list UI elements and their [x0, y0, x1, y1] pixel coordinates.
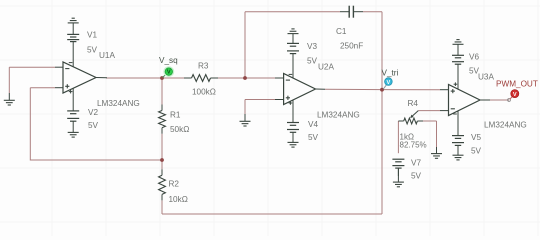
svg-text:R4: R4: [408, 99, 419, 108]
resistor R2: [159, 175, 166, 194]
svg-text:5V: 5V: [471, 146, 482, 155]
svg-text:R1: R1: [170, 111, 181, 120]
wire R1 to node B: [161, 134, 163, 160]
ground at R4 right lead: [431, 147, 442, 158]
battery V6: [452, 44, 464, 64]
battery V2: [67, 111, 79, 132]
battery V4: [287, 123, 299, 143]
resistor R3: [192, 75, 211, 82]
potentiometer R4: [404, 118, 418, 124]
ground below V5: [453, 155, 464, 160]
probe V_sq: [163, 66, 175, 77]
svg-text:V: V: [513, 92, 517, 98]
wire node B to R2: [161, 160, 163, 169]
wire feedback up: [29, 88, 31, 161]
battery V3: [287, 34, 299, 54]
wire R4 right lead down to ground: [436, 121, 438, 147]
svg-text:V_sq: V_sq: [159, 56, 178, 65]
pin stubs U3A: [440, 64, 490, 135]
svg-text:U2A: U2A: [318, 63, 334, 72]
svg-text:V7: V7: [411, 158, 421, 167]
svg-text:V: V: [167, 70, 171, 76]
battery V5: [452, 136, 464, 156]
wire op1 output to node V_sq: [106, 77, 162, 79]
svg-text:R3: R3: [198, 62, 209, 71]
svg-text:LM324ANG: LM324ANG: [317, 110, 360, 119]
pin stubs R1: [161, 105, 163, 134]
wire node A up to top rail: [244, 12, 246, 78]
ground above V6: [453, 40, 464, 45]
svg-text:V3: V3: [307, 42, 317, 51]
battery V1: [67, 23, 79, 42]
svg-text:5V: 5V: [307, 56, 318, 65]
battery V7: [392, 159, 404, 176]
U2A negative supply mark: [289, 73, 293, 75]
svg-text:10kΩ: 10kΩ: [169, 195, 188, 204]
svg-text:5V: 5V: [411, 171, 422, 180]
svg-text:LM324ANG: LM324ANG: [97, 99, 140, 108]
wire node B left feedback: [30, 159, 162, 161]
op-amp U1A: [63, 62, 96, 93]
svg-text:LM324ANG: LM324ANG: [484, 120, 527, 129]
svg-text:C1: C1: [336, 27, 347, 36]
wire R4 wiper to U3A inverting input: [418, 110, 440, 112]
node B junction: [160, 158, 164, 162]
node V_sq junction: [160, 76, 164, 80]
svg-text:V_tri: V_tri: [382, 69, 399, 78]
probe V_tri: [383, 78, 392, 89]
U3A negative supply mark: [453, 113, 457, 115]
wire top rail to C1: [245, 11, 340, 13]
svg-text:U3A: U3A: [478, 73, 494, 82]
U2A positive supply mark: [289, 101, 293, 105]
wire U2A non-inverting input down to ground: [244, 100, 246, 115]
ground at U1A inverting input: [4, 93, 15, 105]
svg-text:V1: V1: [87, 30, 97, 39]
svg-text:V2: V2: [88, 108, 98, 117]
svg-text:82.75%: 82.75%: [400, 141, 427, 150]
ground above V3: [288, 29, 299, 34]
wire bottom rail up to node V_tri: [381, 90, 383, 214]
wire R2 to bottom rail: [161, 200, 163, 214]
ground below V4: [288, 142, 299, 147]
wire node A to U2A inverting input: [245, 77, 275, 79]
wire C1 to top right corner: [363, 11, 382, 13]
pin stubs U1A: [55, 42, 107, 111]
svg-text:PWM_OUT: PWM_OUT: [496, 79, 538, 88]
ground below V7: [393, 168, 404, 187]
U3A positive supply mark: [454, 82, 458, 86]
U1A positive supply mark: [69, 90, 73, 94]
wire node V_tri to U3A non-inverting input: [382, 89, 440, 91]
op-amp U2A: [284, 74, 316, 105]
ground above V1: [68, 18, 79, 23]
svg-text:5V: 5V: [87, 45, 98, 54]
wire U1A inverting input down to ground: [8, 67, 10, 93]
wire top right corner down to node V_tri: [381, 12, 383, 90]
wire V_sq node to R3: [162, 77, 184, 79]
ground at U2A non-inverting input: [240, 114, 251, 126]
probe PWM_OUT: [508, 90, 519, 102]
svg-text:250nF: 250nF: [340, 41, 363, 50]
wire U2A non-inverting input: [245, 99, 275, 101]
pin stubs R3: [184, 77, 218, 79]
svg-text:5V: 5V: [308, 133, 319, 142]
wire U2A output to node V_tri: [325, 88, 382, 90]
svg-text:V4: V4: [308, 120, 318, 129]
svg-text:V5: V5: [471, 133, 481, 142]
svg-text:V6: V6: [469, 53, 479, 62]
R4 wiper arrow: [410, 111, 418, 119]
wire bottom rail: [162, 213, 382, 215]
svg-text:100kΩ: 100kΩ: [192, 87, 216, 96]
svg-text:U1A: U1A: [99, 51, 115, 60]
svg-text:V: V: [387, 80, 391, 86]
pin stubs R2: [161, 169, 163, 200]
wire R4 to V7: [397, 121, 399, 153]
op-amp U3A: [449, 85, 481, 116]
wire R3 to node A: [218, 77, 245, 79]
svg-text:50kΩ: 50kΩ: [170, 125, 189, 134]
node A junction: [243, 76, 247, 80]
svg-text:5V: 5V: [88, 121, 99, 130]
wire R4 right lead: [423, 120, 437, 122]
ground below V2: [68, 132, 79, 137]
pin stubs R4: [398, 120, 423, 122]
pin stubs U2A: [275, 54, 325, 123]
wire V_sq node down to R1: [161, 78, 163, 105]
wire U1A inverting input: [9, 66, 55, 68]
wire feedback to U1A non-inverting input: [30, 87, 55, 89]
U1A negative supply mark: [69, 62, 73, 64]
resistor R1: [159, 111, 166, 128]
node V_tri junction: [380, 88, 384, 92]
capacitor C1: [340, 6, 363, 18]
svg-text:R2: R2: [169, 180, 180, 189]
wire U3A output to probe PWM_OUT: [490, 99, 509, 101]
